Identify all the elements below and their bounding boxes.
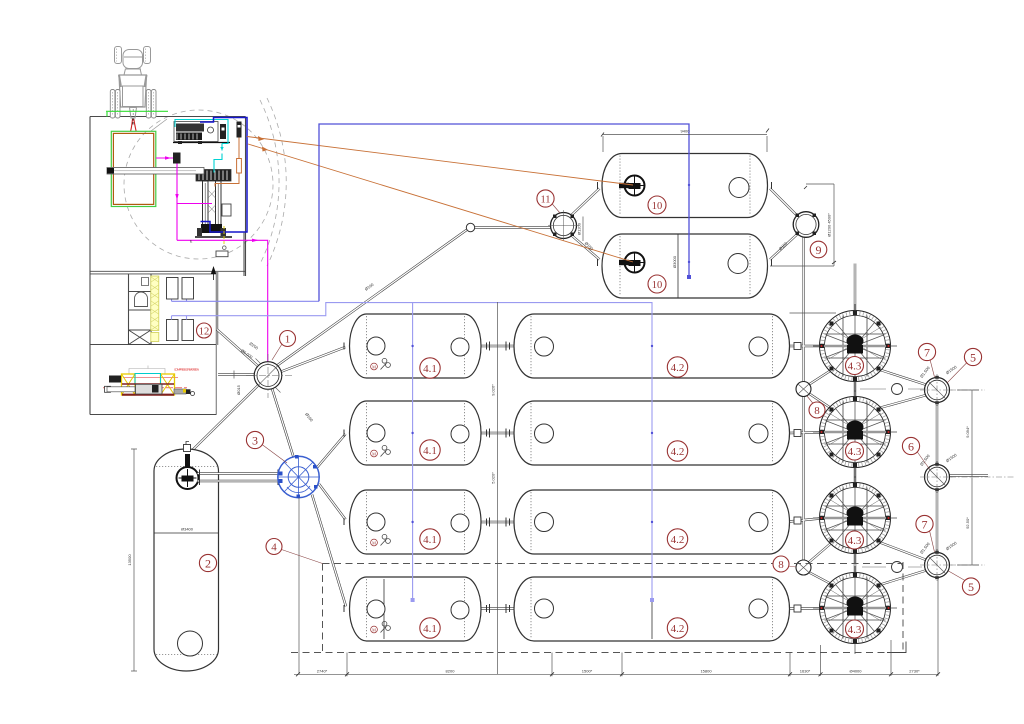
- svg-text:92.50*: 92.50*: [965, 517, 970, 529]
- svg-text:2740*: 2740*: [317, 669, 328, 674]
- svg-text:COMPRESSORE AERZEN: COMPRESSORE AERZEN: [174, 368, 199, 372]
- svg-text:4.3: 4.3: [848, 361, 862, 373]
- svg-text:9.026*: 9.026*: [491, 384, 496, 396]
- svg-text:4.2: 4.2: [671, 362, 685, 374]
- svg-text:4.1: 4.1: [423, 623, 437, 635]
- svg-text:4.2: 4.2: [671, 534, 685, 546]
- svg-text:Ø1200: Ø1200: [577, 222, 582, 235]
- svg-text:2730*: 2730*: [909, 669, 920, 674]
- svg-text:8200: 8200: [446, 669, 456, 674]
- svg-text:Ø4000: Ø4000: [849, 669, 862, 674]
- svg-text:4.1: 4.1: [423, 363, 437, 375]
- svg-text:4: 4: [271, 542, 277, 554]
- svg-text:4.1: 4.1: [423, 445, 437, 457]
- svg-text:10: 10: [652, 201, 663, 212]
- svg-text:7: 7: [922, 517, 928, 531]
- svg-text:4.3: 4.3: [848, 624, 862, 636]
- svg-text:10: 10: [652, 280, 663, 291]
- svg-text:2: 2: [205, 556, 211, 570]
- svg-text:Ø3000: Ø3000: [672, 255, 677, 268]
- svg-text:3: 3: [252, 433, 258, 447]
- svg-text:5.020*: 5.020*: [491, 472, 496, 484]
- svg-text:6: 6: [908, 439, 914, 453]
- svg-text:4.2: 4.2: [671, 446, 685, 458]
- svg-text:11: 11: [540, 194, 550, 205]
- svg-text:15800: 15800: [700, 669, 712, 674]
- svg-text:Ø015: Ø015: [236, 384, 241, 395]
- svg-text:9.094*: 9.094*: [965, 426, 970, 438]
- svg-text:4.3: 4.3: [848, 535, 862, 547]
- svg-text:9400: 9400: [681, 129, 691, 134]
- svg-text:13500: 13500: [127, 554, 132, 566]
- svg-text:7: 7: [924, 345, 930, 359]
- svg-text:4.1: 4.1: [423, 534, 437, 546]
- svg-text:9: 9: [816, 243, 822, 257]
- svg-text:4.2: 4.2: [671, 623, 685, 635]
- svg-text:1: 1: [285, 334, 291, 346]
- svg-text:8: 8: [814, 405, 820, 417]
- svg-text:8: 8: [778, 559, 784, 571]
- svg-text:4.3: 4.3: [848, 446, 862, 458]
- svg-text:Ø3400: Ø3400: [181, 527, 194, 532]
- svg-text:5: 5: [970, 350, 976, 364]
- svg-text:M: M: [372, 364, 376, 369]
- svg-text:12: 12: [199, 326, 210, 337]
- svg-text:1500*: 1500*: [582, 669, 593, 674]
- svg-text:5: 5: [968, 580, 974, 594]
- svg-text:1630*: 1630*: [800, 669, 811, 674]
- svg-text:Ø1200 4500*: Ø1200 4500*: [827, 213, 832, 237]
